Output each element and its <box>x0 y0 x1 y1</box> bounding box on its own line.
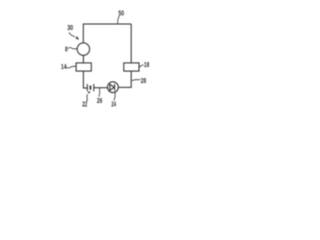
svg-text:28: 28 <box>141 76 146 85</box>
svg-text:14: 14 <box>61 62 67 71</box>
svg-text:24: 24 <box>111 100 116 109</box>
svg-text:22: 22 <box>82 100 87 109</box>
svg-text:30: 30 <box>67 23 73 32</box>
svg-text:26: 26 <box>97 96 102 105</box>
svg-text:8: 8 <box>65 44 68 53</box>
svg-text:50: 50 <box>118 8 124 17</box>
svg-text:18: 18 <box>144 60 149 69</box>
